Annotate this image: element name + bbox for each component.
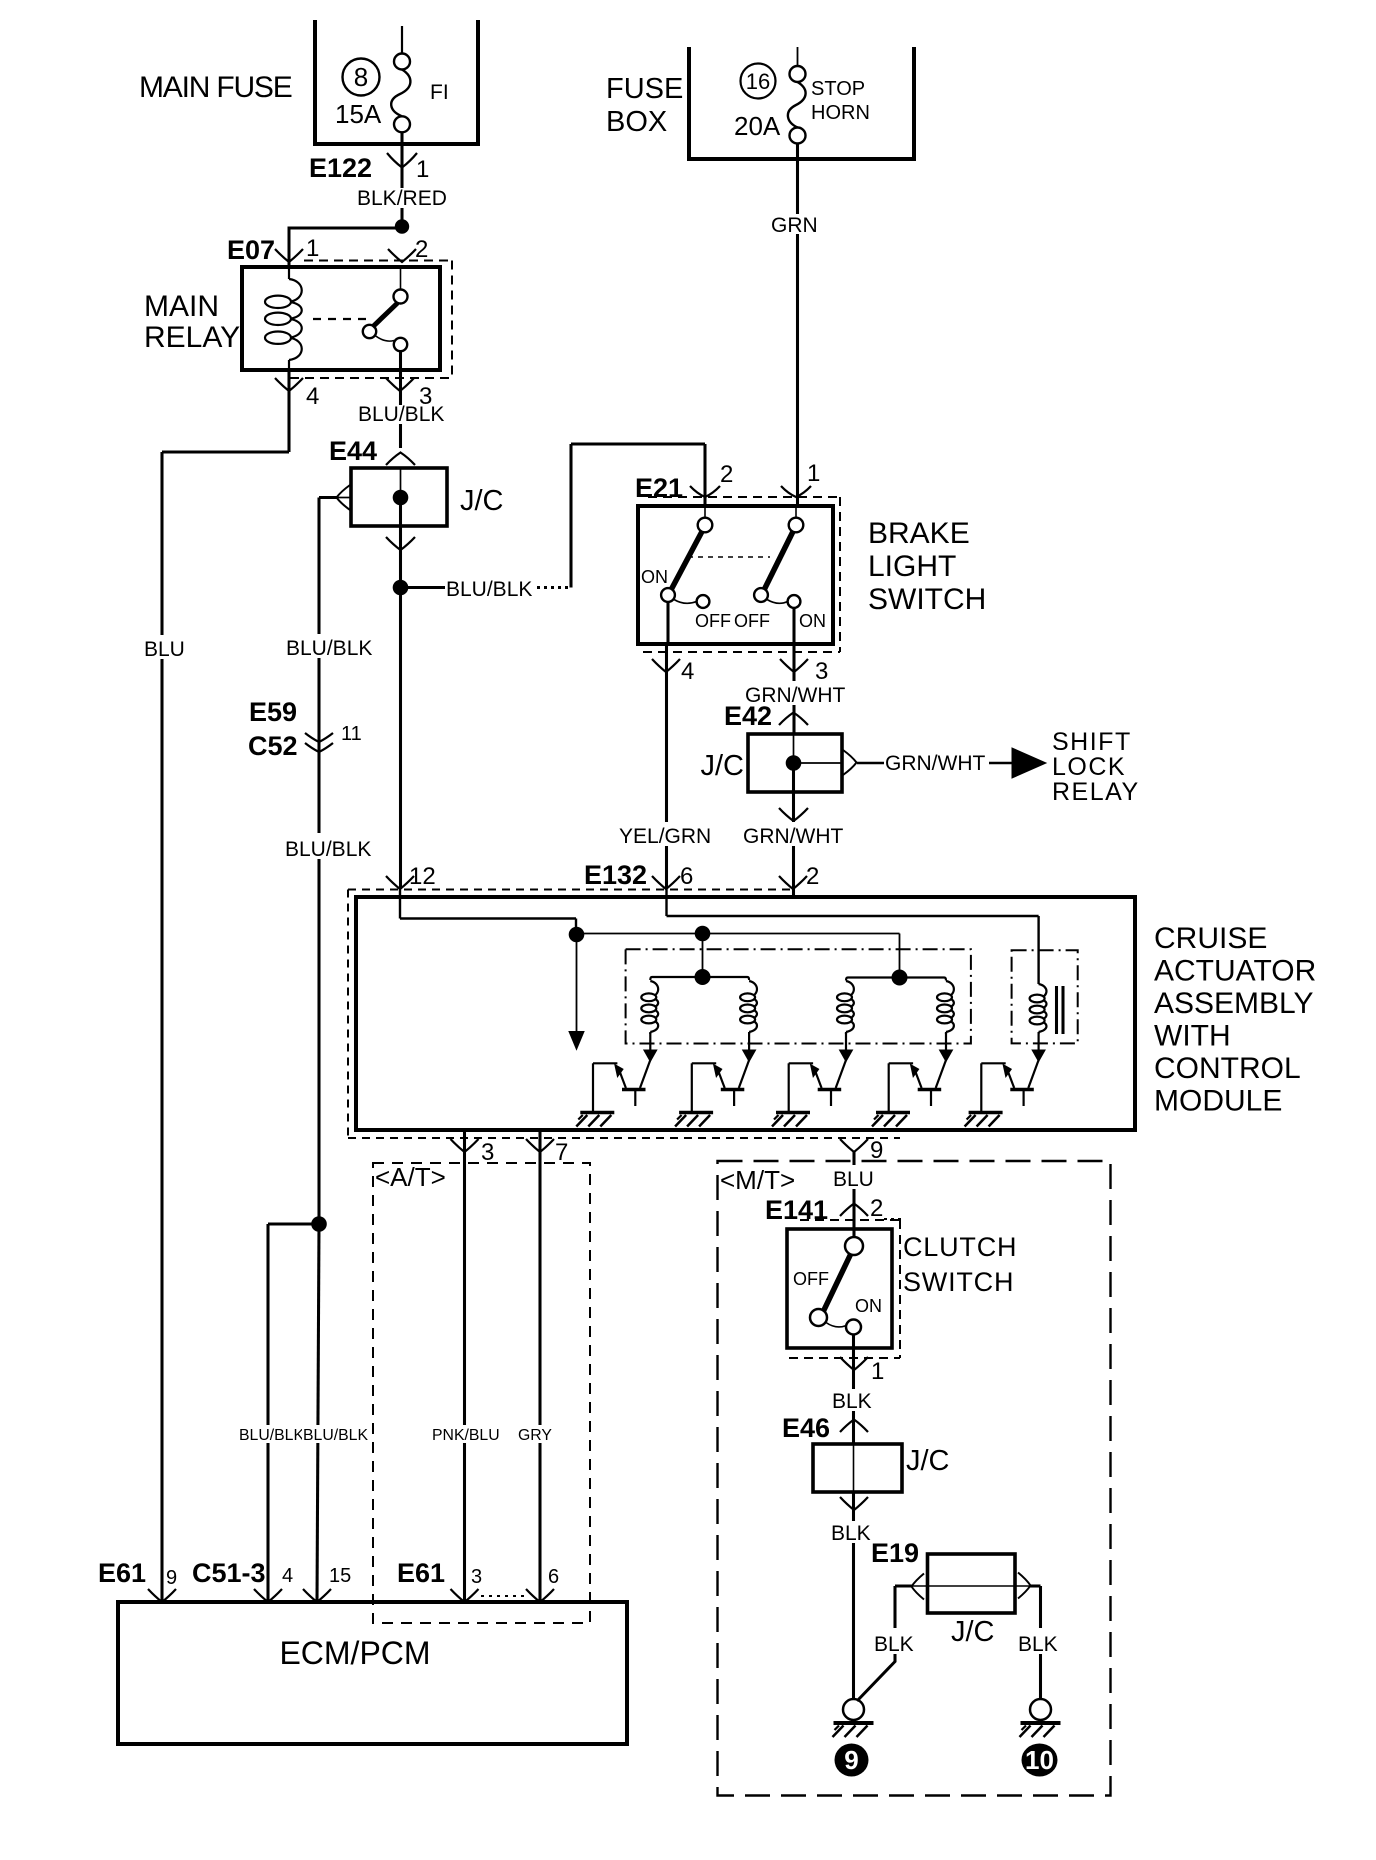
- wire pin 3 BLU/BLK: [399, 370, 402, 448]
- svg-text:SWITCH: SWITCH: [868, 583, 986, 616]
- transistor Q5: [1032, 1050, 1045, 1062]
- wire to arrow: [989, 762, 1013, 764]
- main fuse box: [315, 20, 478, 144]
- wire BLU/BLK down: [399, 526, 402, 889]
- connector E07 pin 1 chevron: [275, 249, 303, 262]
- node junction BLK/RED: [395, 219, 409, 233]
- wire E44 vertical: [400, 468, 402, 497]
- svg-text:E07: E07: [227, 235, 275, 265]
- svg-text:6: 6: [680, 863, 693, 890]
- connector E07 dashed outline: [304, 260, 452, 262]
- svg-text:E122: E122: [309, 153, 372, 183]
- svg-text:SWITCH: SWITCH: [903, 1267, 1014, 1297]
- wire clutch pin 1: [852, 1335, 855, 1445]
- svg-text:1: 1: [416, 156, 429, 183]
- dash-dot coil group box: [626, 949, 971, 1043]
- svg-text:E42: E42: [724, 701, 772, 731]
- coil L4: [946, 981, 954, 1032]
- MT dashed box: [718, 1161, 1111, 1796]
- ground Q5: [969, 1111, 1003, 1114]
- wire GRN: [796, 144, 799, 507]
- svg-text:<A/T>: <A/T>: [375, 1162, 446, 1192]
- svg-text:E44: E44: [329, 436, 377, 466]
- svg-text:10: 10: [1025, 1745, 1054, 1775]
- svg-text:2: 2: [806, 863, 819, 890]
- ground G9 circle: [843, 1699, 864, 1720]
- wire through E19: [913, 1585, 1030, 1587]
- brake switch right: [795, 506, 797, 518]
- relay switch: [400, 267, 402, 290]
- ground Q3: [776, 1111, 810, 1114]
- connector E132 pin 6 chevron: [652, 876, 680, 889]
- svg-text:RELAY: RELAY: [144, 321, 240, 354]
- connector E07 pin 4 chevron: [275, 378, 303, 391]
- label GRY: [517, 1425, 553, 1443]
- relay coil: [288, 267, 290, 279]
- wire E44 left branch: [319, 496, 337, 499]
- wire dotted to corner: [537, 586, 572, 589]
- svg-text:6: 6: [548, 1566, 559, 1588]
- junction box E42 J/C: [748, 734, 842, 792]
- svg-text:MAIN: MAIN: [144, 290, 219, 323]
- svg-text:J/C: J/C: [951, 1616, 995, 1648]
- wire pin2 entry: [703, 444, 706, 506]
- wire BLU left column: [162, 450, 289, 453]
- coil L1: [650, 981, 658, 1032]
- connector E19 right chevron: [1018, 1573, 1031, 1599]
- ground Q1: [580, 1111, 614, 1114]
- connector dotted bridge 3-6: [481, 1595, 527, 1597]
- node E42 junction dot: [786, 755, 802, 771]
- svg-text:BLU/BLK: BLU/BLK: [303, 1427, 368, 1444]
- svg-text:BLK: BLK: [874, 1633, 914, 1656]
- connector E19 left chevron: [912, 1574, 925, 1600]
- wire pin 4 YEL/GRN: [666, 602, 669, 644]
- label GRN/WHT below E42: [742, 822, 846, 846]
- node junction dot: [311, 1216, 327, 1232]
- coil pair 2 feed: [846, 978, 900, 981]
- wire GRN/WHT right: [857, 762, 884, 764]
- clutch switch symbol: [853, 1229, 855, 1238]
- svg-text:BLU: BLU: [144, 638, 185, 661]
- clutch plates: [1055, 986, 1058, 1034]
- label BLU/BLK: [285, 634, 361, 658]
- svg-text:4: 4: [282, 1565, 293, 1587]
- main relay box: [242, 267, 440, 370]
- transistor Q1: [644, 1050, 657, 1062]
- svg-text:ECM/PCM: ECM/PCM: [279, 1635, 430, 1671]
- svg-text:ON: ON: [799, 611, 826, 631]
- connector E59/C52 double chevron: [305, 733, 333, 742]
- big arrow down: [576, 935, 578, 1034]
- fuse F8 15A FI symbol: [394, 54, 410, 70]
- svg-text:OFF: OFF: [695, 611, 731, 631]
- label BLK 2: [830, 1521, 878, 1543]
- wire pin 3 GRN/WHT: [792, 608, 795, 644]
- svg-text:C52: C52: [248, 731, 298, 761]
- transistor Q2: [743, 1050, 756, 1062]
- ground G9 symbol: [834, 1721, 874, 1725]
- connector C51-3 pin15 chevron: [303, 1589, 331, 1602]
- svg-text:3: 3: [471, 1566, 482, 1588]
- wire pin6 internal: [665, 889, 667, 916]
- wire pin3 PNK/BLU: [463, 1130, 466, 1602]
- node dot C: [892, 970, 908, 986]
- connector E61-9 chevron: [148, 1589, 176, 1602]
- circled 16: [741, 64, 776, 99]
- svg-text:1: 1: [306, 235, 319, 262]
- node dot A: [569, 927, 585, 943]
- svg-text:3: 3: [481, 1139, 494, 1166]
- svg-text:LOCK: LOCK: [1052, 753, 1126, 781]
- svg-text:ASSEMBLY: ASSEMBLY: [1154, 987, 1314, 1020]
- connector pin 3 chevron: [451, 1139, 479, 1152]
- svg-text:E61: E61: [397, 1558, 445, 1588]
- actuator dashed outline: [347, 890, 349, 1139]
- connector E61 pin6 chevron: [526, 1589, 554, 1602]
- svg-text:MAIN FUSE: MAIN FUSE: [139, 71, 292, 104]
- wire pin2 stub: [792, 889, 794, 899]
- arrow to shift lock relay: [1012, 748, 1046, 778]
- svg-text:PNK/BLU: PNK/BLU: [432, 1427, 500, 1444]
- svg-text:9: 9: [844, 1745, 858, 1775]
- wire through E46: [853, 1444, 855, 1492]
- label BLU/BLK small right: [302, 1425, 358, 1443]
- wire up to E21: [569, 444, 572, 588]
- connector E132 pin 2 chevron: [779, 876, 807, 889]
- fuse F16 symbol: [797, 47, 799, 66]
- wire E42 right branch: [794, 762, 843, 764]
- svg-text:FI: FI: [430, 81, 449, 104]
- ECM/PCM box: [118, 1602, 627, 1744]
- svg-text:GRN/WHT: GRN/WHT: [885, 752, 985, 775]
- node junction BLU/BLK: [393, 580, 409, 596]
- wire B down: [702, 934, 704, 978]
- svg-text:8: 8: [354, 62, 368, 92]
- ground G10 circle: [1030, 1699, 1051, 1720]
- coil L2: [749, 981, 757, 1032]
- svg-text:BOX: BOX: [606, 106, 667, 138]
- brake switch linkage dashed: [688, 556, 770, 558]
- label GRN/WHT above E42: [744, 681, 846, 705]
- svg-text:2: 2: [870, 1195, 883, 1222]
- connector E44 left chevron: [337, 485, 351, 510]
- svg-text:BLU/BLK: BLU/BLK: [358, 403, 444, 426]
- svg-text:ON: ON: [641, 567, 668, 587]
- svg-text:YEL/GRN: YEL/GRN: [619, 825, 711, 848]
- svg-text:RELAY: RELAY: [1052, 778, 1140, 806]
- svg-text:ACTUATOR: ACTUATOR: [1154, 955, 1316, 988]
- label BLU/BLK: [357, 405, 449, 424]
- svg-text:BLU/BLK: BLU/BLK: [286, 637, 372, 660]
- wire branch to C51-3 pin 4: [268, 1222, 319, 1225]
- svg-text:J/C: J/C: [906, 1445, 950, 1477]
- connector E61 pin3 chevron: [451, 1589, 479, 1602]
- wire to pin 15: [317, 1224, 319, 1602]
- connector E122 pin 1 chevron: [387, 153, 417, 168]
- ground G10 symbol: [1021, 1721, 1061, 1725]
- svg-text:BLK: BLK: [831, 1522, 871, 1545]
- connector E44 bottom chevron: [386, 537, 415, 550]
- svg-text:BLK/RED: BLK/RED: [357, 187, 447, 210]
- connector E07 pin 3 chevron: [386, 378, 414, 391]
- connector E46 bottom chevron: [840, 1497, 868, 1510]
- svg-text:GRY: GRY: [518, 1427, 552, 1444]
- brake switch left: [704, 506, 706, 518]
- connector E42 right chevron: [843, 750, 857, 775]
- junction box E44 J/C: [351, 468, 447, 526]
- label YEL/GRN: [618, 822, 716, 846]
- ground Q2: [679, 1111, 713, 1114]
- connector pin 9 chevron: [840, 1139, 868, 1152]
- svg-text:2: 2: [720, 461, 733, 488]
- svg-text:16: 16: [746, 69, 770, 94]
- connector E46 chevron up: [840, 1420, 868, 1433]
- label BLK left leg: [873, 1628, 919, 1654]
- svg-text:E132: E132: [584, 860, 647, 890]
- svg-text:BLU/BLK: BLU/BLK: [446, 578, 532, 601]
- wire: [401, 26, 403, 54]
- wire E19 left leg: [895, 1584, 913, 1587]
- svg-text:GRN/WHT: GRN/WHT: [743, 825, 843, 848]
- wire to relay pin 1: [288, 227, 403, 230]
- coil L5 magnetic clutch: [1039, 984, 1047, 1032]
- coil L3: [846, 981, 854, 1032]
- clutch switch dashed outline: [800, 1219, 900, 1221]
- connector E141 chevron up: [840, 1204, 868, 1217]
- svg-text:GRN: GRN: [771, 214, 818, 237]
- svg-text:1: 1: [871, 1358, 884, 1385]
- svg-text:15: 15: [329, 1565, 351, 1587]
- svg-text:OFF: OFF: [734, 611, 770, 631]
- wire E42 vertical: [793, 734, 795, 763]
- svg-text:BRAKE: BRAKE: [868, 517, 970, 550]
- label BLK right leg: [1017, 1628, 1065, 1654]
- node dot B: [695, 926, 711, 942]
- connector E132 pin 12 chevron: [386, 876, 414, 889]
- wire E19 right leg: [1030, 1584, 1041, 1587]
- svg-text:4: 4: [681, 658, 694, 685]
- label BLU/BLK small left: [238, 1425, 297, 1443]
- svg-text:BLU/BLK: BLU/BLK: [285, 838, 371, 861]
- junction box E46 J/C: [813, 1444, 902, 1492]
- wire pin12 internal: [399, 889, 401, 919]
- label BLU: [832, 1165, 880, 1189]
- wire bus A-B-C: [577, 933, 900, 935]
- svg-text:CRUISE: CRUISE: [1154, 922, 1267, 955]
- svg-text:11: 11: [341, 723, 362, 745]
- connector E21 pin 4 chevron: [652, 659, 680, 672]
- svg-text:BLU/BLK: BLU/BLK: [239, 1427, 304, 1444]
- svg-text:20A: 20A: [734, 111, 781, 141]
- label BLK 1: [831, 1389, 879, 1411]
- wire pin 4: [287, 370, 290, 452]
- connector E141 dotted line: [884, 1218, 903, 1220]
- wire BLK/RED: [400, 167, 403, 228]
- circled 8: [343, 59, 380, 96]
- junction box E19 J/C: [928, 1554, 1016, 1613]
- node E44 junction dot: [393, 490, 409, 506]
- node dot D: [695, 969, 711, 985]
- connector E21 dashed outline: [648, 496, 840, 498]
- connector E21 pin 2 chevron: [690, 486, 720, 497]
- ground id 9: [835, 1744, 869, 1777]
- svg-text:2: 2: [415, 236, 428, 263]
- connector C51-3 pin4 chevron: [254, 1589, 282, 1602]
- brake light switch box: [638, 506, 833, 644]
- svg-text:ON: ON: [855, 1296, 882, 1316]
- svg-text:<M/T>: <M/T>: [720, 1165, 795, 1195]
- svg-text:HORN: HORN: [811, 102, 870, 124]
- svg-text:STOP: STOP: [811, 78, 865, 100]
- svg-text:BLU: BLU: [833, 1168, 874, 1191]
- wire BLU/BLK column: [317, 498, 320, 1225]
- connector E21 pin 1 chevron: [781, 486, 811, 497]
- wire: [400, 132, 403, 168]
- svg-text:CLUTCH: CLUTCH: [903, 1232, 1017, 1262]
- label PNK/BLU: [431, 1425, 507, 1443]
- svg-text:9: 9: [166, 1567, 177, 1589]
- svg-text:E46: E46: [782, 1413, 830, 1443]
- svg-text:BLK: BLK: [832, 1390, 872, 1413]
- connector clutch pin1 chevron: [840, 1357, 868, 1370]
- svg-text:3: 3: [815, 658, 828, 685]
- svg-text:12: 12: [409, 863, 436, 890]
- transistor Q4: [940, 1050, 953, 1062]
- svg-text:E19: E19: [871, 1538, 919, 1568]
- ground id 10: [1022, 1744, 1058, 1777]
- label BLU: [143, 635, 189, 659]
- coil pair 1 feed: [650, 977, 702, 980]
- dash-dot clutch coil box: [1012, 950, 1078, 1043]
- wire junction to right: [401, 586, 446, 589]
- svg-text:J/C: J/C: [701, 750, 745, 782]
- svg-text:E21: E21: [635, 473, 683, 503]
- svg-text:E59: E59: [249, 697, 297, 727]
- relay linkage dashed: [313, 318, 366, 320]
- svg-text:LIGHT: LIGHT: [868, 550, 956, 583]
- connector E132 dashed line: [348, 889, 790, 891]
- connector E42 bottom chevron: [779, 808, 808, 821]
- fuse box: [689, 47, 914, 159]
- svg-text:WITH: WITH: [1154, 1020, 1231, 1053]
- svg-text:SHIFT: SHIFT: [1052, 728, 1132, 756]
- ground Q4: [876, 1111, 910, 1114]
- svg-text:BLK: BLK: [1018, 1633, 1058, 1656]
- label GRN: [770, 214, 822, 234]
- wire BLU: [852, 1152, 855, 1237]
- label BLU/BLK below C52: [284, 833, 362, 859]
- svg-text:C51-3: C51-3: [192, 1558, 266, 1588]
- connector E44 chevron up: [386, 453, 415, 466]
- svg-text:FUSE: FUSE: [606, 73, 683, 105]
- svg-text:MODULE: MODULE: [1154, 1085, 1282, 1118]
- wire BLK to ground 9: [852, 1492, 855, 1699]
- svg-text:E61: E61: [98, 1558, 146, 1588]
- connector E42 chevron up: [779, 713, 808, 726]
- svg-text:J/C: J/C: [460, 485, 504, 517]
- wire GRN/WHT to E132: [792, 792, 795, 898]
- svg-text:15A: 15A: [335, 99, 382, 129]
- label BLK/RED: [356, 188, 452, 208]
- connector E21 pin 3 chevron: [780, 659, 808, 672]
- connector E07 pin 2 chevron: [388, 249, 416, 262]
- svg-text:OFF: OFF: [793, 1269, 829, 1289]
- transistor Q3: [840, 1050, 853, 1062]
- connector pin 7 chevron: [526, 1139, 554, 1152]
- cruise actuator box: [356, 897, 1135, 1130]
- wire pin7 GRY: [538, 1130, 541, 1602]
- svg-text:4: 4: [306, 383, 319, 410]
- AT dashed box: [373, 1163, 590, 1623]
- svg-text:7: 7: [555, 1139, 568, 1166]
- svg-text:CONTROL: CONTROL: [1154, 1052, 1301, 1085]
- clutch switch box: [787, 1229, 892, 1348]
- svg-text:1: 1: [807, 460, 820, 487]
